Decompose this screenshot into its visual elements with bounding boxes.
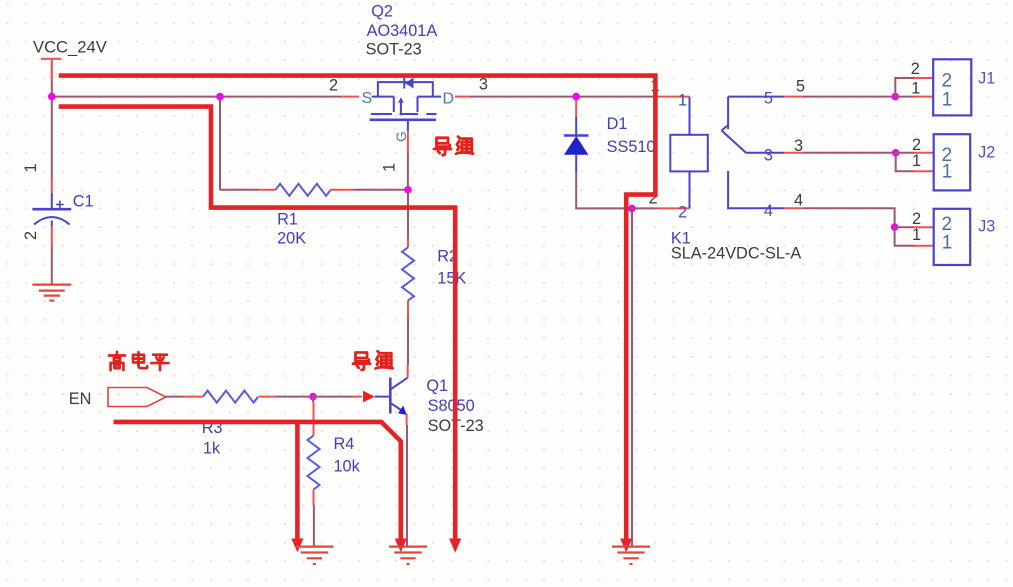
pin stub relay pin3 [784,152,803,154]
svg-text:AO3401A: AO3401A [367,22,438,40]
svg-text:Q1: Q1 [426,377,448,395]
wire R2 to Q1 collector [407,318,409,365]
svg-text:J1: J1 [978,70,995,88]
svg-text:2: 2 [678,204,687,222]
wire R4 to ground [313,505,315,547]
pin stub J3 pin2 [914,226,934,228]
junction node R1 branch [216,93,224,101]
pin stub J3 pin1 [914,245,934,247]
highlighted path 1 (VCC rail to relay coil) [59,76,656,540]
resistor R2 [402,247,414,300]
svg-text:4: 4 [794,192,803,210]
highlighted path 2 (gate drive branch) [59,107,455,540]
wire relay pin5 to J1 [803,96,895,98]
wire J1 pin1 [895,96,914,98]
pin stub R1 left [259,189,275,191]
arrow end path3 [395,539,407,553]
pin stub R4 bottom [313,490,315,506]
svg-text:D1: D1 [607,115,628,133]
svg-text:1k: 1k [203,440,221,458]
wire R1 branch vertical [219,97,221,190]
wire main VCC rail left [52,96,341,98]
junction node VCC/C1 [48,93,56,101]
relay pin1 lead [689,97,691,135]
pin stub C1 pin2 [51,226,53,246]
junction node J1 [892,93,900,101]
power port VCC_24V [41,59,61,79]
capacitor C1 [32,193,71,227]
wire Q1 emitter to ground [406,425,408,547]
resistor R3 [203,391,258,403]
wire node to R2 [407,190,409,237]
svg-text:5: 5 [796,78,805,96]
pin stub R1 right [331,189,354,191]
junction node J3 [891,223,899,231]
arrow end branch [291,539,303,553]
svg-text:SS510: SS510 [607,138,656,156]
svg-text:J2: J2 [978,144,995,162]
annotation 导通 (bottom) [353,353,370,370]
wire R3 to node [276,396,313,398]
Q1 emitter arrow [398,406,407,415]
wire EN to R3 [166,396,183,398]
svg-text:4: 4 [764,202,773,220]
wire to R1 [220,189,259,191]
svg-text:VCC_24V: VCC_24V [33,38,107,57]
current arrow into base [363,391,375,403]
svg-text:2: 2 [329,76,338,94]
annotation 高电平 [109,352,125,370]
pin stub Q1 collector [407,365,409,378]
svg-text:1: 1 [912,226,921,244]
junction node J2 [892,149,900,157]
pin stub R4 top [313,402,315,436]
wire relay pin4 to J3 [803,208,895,227]
pin stub J2 pin1 [914,170,934,172]
wire C1 branch [51,97,53,178]
svg-text:SOT-23: SOT-23 [366,41,422,59]
connector J2 [934,134,971,190]
wire node to R4 [312,397,314,402]
svg-text:10k: 10k [334,458,361,476]
pin stub relay pin4 [784,207,803,209]
svg-text:D: D [443,91,455,108]
svg-text:3: 3 [764,147,773,165]
svg-text:2: 2 [22,231,40,240]
svg-text:1: 1 [942,233,953,254]
svg-text:Q2: Q2 [371,3,393,21]
junction node R3/R4/base [309,393,317,401]
pin stub relay pin2 [658,207,690,209]
svg-text:20K: 20K [277,230,306,248]
annotation 导通 (top) [434,138,451,155]
pin stub C1 pin1 [51,178,53,194]
wire J3 pin2 [895,226,914,228]
junction node gate/R1/R2 [404,186,412,194]
arrow end path2 [449,539,461,553]
wire J1 branch up [895,78,914,97]
svg-text:15K: 15K [437,270,466,288]
ground (R4) [295,547,333,564]
port EN [108,388,166,407]
resistor R1 [276,184,331,196]
Q2 body-diode arrow [405,78,414,89]
svg-text:S: S [362,90,373,107]
pin stub R3 right [259,396,276,398]
diode D1 SS510 [575,117,577,136]
pin stub D1 top [575,97,577,117]
pin stub relay pin5 [784,96,803,98]
svg-text:EN: EN [69,390,92,408]
wire J2 pin2 [896,152,914,154]
wire node to relay pin2 [632,207,658,209]
relay pin2 lead [689,171,691,208]
junction node relay pin2 [628,205,636,213]
svg-text:SLA-24VDC-SL-A: SLA-24VDC-SL-A [671,245,801,263]
pin stub J1 pin1 [914,96,933,98]
svg-text:1: 1 [942,90,953,111]
svg-text:5: 5 [764,90,773,108]
wire relay pin3 to J2 [803,152,896,154]
pin stub R2 top [407,237,409,247]
wire drain to relay [470,96,655,98]
connector J3 [934,209,971,265]
svg-text:C1: C1 [73,193,94,211]
Q2 substrate arrow [398,97,404,102]
svg-text:1: 1 [911,80,920,98]
ground (Q1 emitter) [389,547,427,564]
pin stub J1 pin2 [914,77,933,79]
wire D1 bottom [576,172,632,208]
ground (relay) [612,547,650,564]
pin stub Q1 base [375,396,389,398]
svg-text:1: 1 [380,163,398,172]
wire relay node to ground [631,208,633,546]
highlighted branch to R4 ground [295,422,300,540]
svg-text:J3: J3 [978,218,995,236]
svg-text:3: 3 [479,76,488,94]
pin stub Q2 source [341,96,359,98]
highlighted path 3 (EN/base-emitter branch) [114,422,401,540]
resistor R4 [308,436,320,490]
wire R1 to gate node [353,189,408,191]
connector J1 [933,59,971,115]
wire VCC vertical drop [51,79,53,97]
svg-text:1: 1 [678,92,687,110]
transistor Q2 PMOS AO3401A [370,78,441,132]
wire node to Q1 base [313,396,353,398]
pin stub J2 pin2 [914,152,934,154]
pin stub Q2 gate [407,131,409,152]
wire J2 branch down [896,153,914,171]
svg-text:1: 1 [942,162,953,183]
pin stub relay pin1 [655,96,690,98]
junction node D1 top [572,93,580,101]
svg-text:2: 2 [942,71,953,92]
arrow end path1 [620,539,632,553]
pin stub Q2 drain [455,96,470,98]
wire J3 branch down [895,227,914,246]
relay switch common pin5 [722,97,785,209]
transistor Q1 NPN S8050 [390,378,407,414]
relay K1 coil [670,135,708,172]
wire C1 to ground [51,246,53,284]
svg-text:S8050: S8050 [428,397,475,415]
svg-text:2: 2 [911,60,920,78]
pin stub R3 left [183,396,203,398]
svg-text:R1: R1 [277,211,298,229]
svg-text:3: 3 [794,137,803,155]
wire gate to R1/R2 node [407,152,409,190]
svg-text:1: 1 [22,163,40,172]
ground (C1) [32,285,71,301]
pin stub R2 bottom [407,301,409,319]
svg-text:R4: R4 [334,435,355,453]
svg-text:1: 1 [912,152,921,170]
pin stub Q1 emitter [406,414,408,426]
